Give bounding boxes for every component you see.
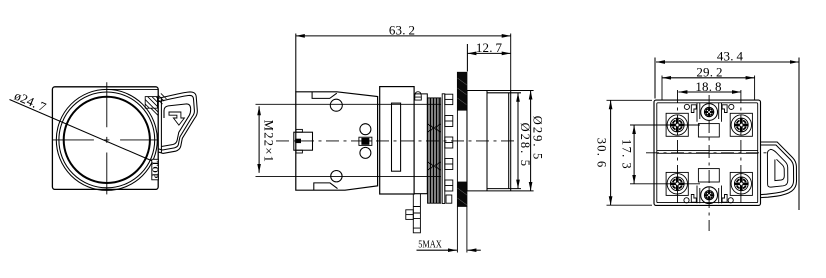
lock ring tabs (445, 94, 453, 203)
inner circles right pair bottom (360, 147, 371, 158)
head cap face (508, 93, 510, 189)
screw column centerline left (677, 90, 679, 205)
small circle UL (684, 104, 689, 109)
coupling block (380, 87, 414, 194)
dim 43.4 right extension (798, 58, 800, 211)
square hole top (698, 124, 719, 137)
head step vertical (486, 91, 488, 191)
bottom terminal pocket (314, 183, 338, 190)
vertical centerline back view (708, 95, 710, 231)
dim dia28.5 line (517, 93, 519, 189)
head cap bottom edge + ext (487, 188, 521, 190)
svg-text:M22×1: M22×1 (261, 120, 275, 163)
small circle UR (729, 104, 734, 109)
terminal screw LL (667, 174, 687, 194)
back clip outer (761, 142, 797, 198)
body inner box (657, 103, 758, 203)
hatch wedge top-right (145, 93, 166, 115)
M22 top extension line (256, 103, 441, 105)
panel hatch top (457, 72, 467, 110)
screw column centerline right (740, 90, 742, 205)
button inner circle (64, 97, 150, 183)
svg-text:Ø28. 5: Ø28. 5 (518, 123, 532, 168)
svg-text:29. 2: 29. 2 (696, 65, 722, 80)
TOP label box (152, 159, 159, 180)
svg-text:TOP: TOP (150, 161, 159, 179)
bracket hook top-left (691, 105, 696, 113)
bracket hook bottom-left (691, 195, 696, 203)
center lamp terminal top housing (697, 103, 722, 122)
svg-text:30. 6: 30. 6 (594, 138, 608, 169)
screw pocket UL (666, 113, 688, 136)
head outer top edge + ext for 29.5 (467, 90, 534, 92)
center black square (361, 138, 369, 145)
square hole bottom (698, 169, 719, 182)
body outer box (654, 100, 761, 205)
dim 17.3 top extension (630, 124, 700, 126)
button outer circle (56, 89, 157, 190)
dim 30.6 line (610, 100, 612, 205)
dim 63.2 line (296, 35, 511, 37)
center lamp terminal bottom housing (697, 186, 722, 204)
5MAX underline and left arrow (417, 249, 457, 251)
clip outer outline (158, 92, 197, 153)
bracket hook bottom-right (722, 195, 727, 203)
body split line upper (657, 149, 758, 151)
dim 63.2 / 12.7 right extension (510, 34, 512, 91)
small circle LL (684, 198, 689, 203)
panel hatch bottom (457, 182, 467, 207)
left plunger top step (296, 129, 302, 132)
stem side tab (406, 210, 414, 220)
center lamp screw top (701, 104, 718, 121)
right side plate (160, 99, 162, 153)
terminal screw LR (731, 174, 751, 194)
screw pocket LR (730, 172, 752, 195)
film corner line top-right (108, 88, 159, 90)
svg-text:ø24. 7: ø24. 7 (12, 88, 49, 115)
dim dia29.5 line (530, 91, 532, 191)
bracket hook top-right (722, 105, 727, 113)
vertical centerline (106, 82, 108, 194)
lock ring spine (442, 94, 445, 204)
head flange left face (466, 91, 468, 191)
dim 12.7 left extension (466, 44, 468, 72)
thread lines (428, 98, 441, 203)
inner circles right pair top (360, 124, 371, 135)
horizontal centerline back view (646, 152, 769, 154)
svg-text:18. 8: 18. 8 (695, 79, 721, 94)
dim 43.4 left extension (654, 58, 656, 99)
dim 29.2 right extension (754, 76, 756, 101)
screw pocket UR (730, 113, 752, 136)
head cap top edge + ext for 28.5 (487, 92, 521, 94)
leader line for diameter label (10, 100, 154, 162)
dim 12.7 line (467, 52, 510, 54)
panel outline (457, 72, 467, 206)
front view bezel square (52, 87, 158, 190)
dim 29.2 line (662, 77, 755, 79)
plate top screw dome (415, 92, 422, 100)
body split line lower (657, 152, 758, 154)
svg-text:63. 2: 63. 2 (389, 23, 415, 38)
bottom screw circle (331, 171, 342, 182)
svg-text:43. 4: 43. 4 (717, 49, 744, 64)
back clip inner (761, 145, 794, 195)
dim 43.4 line (656, 61, 799, 63)
screw pocket LL (666, 172, 688, 195)
contact block outline (296, 92, 378, 190)
back clip innermost mark (775, 159, 784, 180)
horizontal centerline (52, 139, 158, 141)
button middle circle (59, 92, 155, 188)
head outer bottom edge + ext (467, 190, 534, 192)
svg-text:17. 3: 17. 3 (620, 139, 634, 170)
terminal screw UL (667, 115, 687, 135)
dim 30.6 top extension (607, 99, 653, 101)
clip hollow arrow (169, 112, 184, 125)
dim 17.3 bottom extension (630, 183, 700, 185)
M22 bottom extension line (256, 176, 441, 178)
coupling inner rect (392, 103, 401, 171)
dim M22x1 line (258, 106, 260, 173)
top terminal pocket (312, 92, 337, 99)
head outer right edge (510, 91, 512, 191)
thread bushing (428, 98, 441, 203)
dim 63.2 left extension (295, 34, 297, 92)
mounting plate (414, 94, 427, 194)
dim 30.6 bottom extension (607, 204, 653, 206)
center lamp screw bottom (701, 187, 718, 204)
svg-text:Ø29. 5: Ø29. 5 (531, 116, 545, 161)
left plunger rect (294, 132, 313, 150)
terminal screw UR (731, 115, 751, 135)
left plunger black tip (295, 139, 301, 143)
dim 29.2 left extension (661, 76, 663, 101)
dim 18.8 line (678, 91, 741, 93)
svg-text:5MAX: 5MAX (418, 239, 442, 250)
bottom stem (413, 194, 420, 233)
clip inner loop (162, 104, 191, 147)
small circle LR (728, 198, 733, 203)
svg-text:12. 7: 12. 7 (476, 40, 503, 55)
side view horizontal centerline (276, 140, 514, 142)
top screw circle (330, 99, 342, 111)
panel edge extensions down (456, 206, 458, 252)
5MAX right arrow (467, 249, 480, 251)
clip inner outline (158, 95, 194, 150)
back clip inner loop (767, 149, 787, 187)
left plunger bottom step (296, 150, 302, 153)
dim 17.3 line (633, 125, 635, 184)
